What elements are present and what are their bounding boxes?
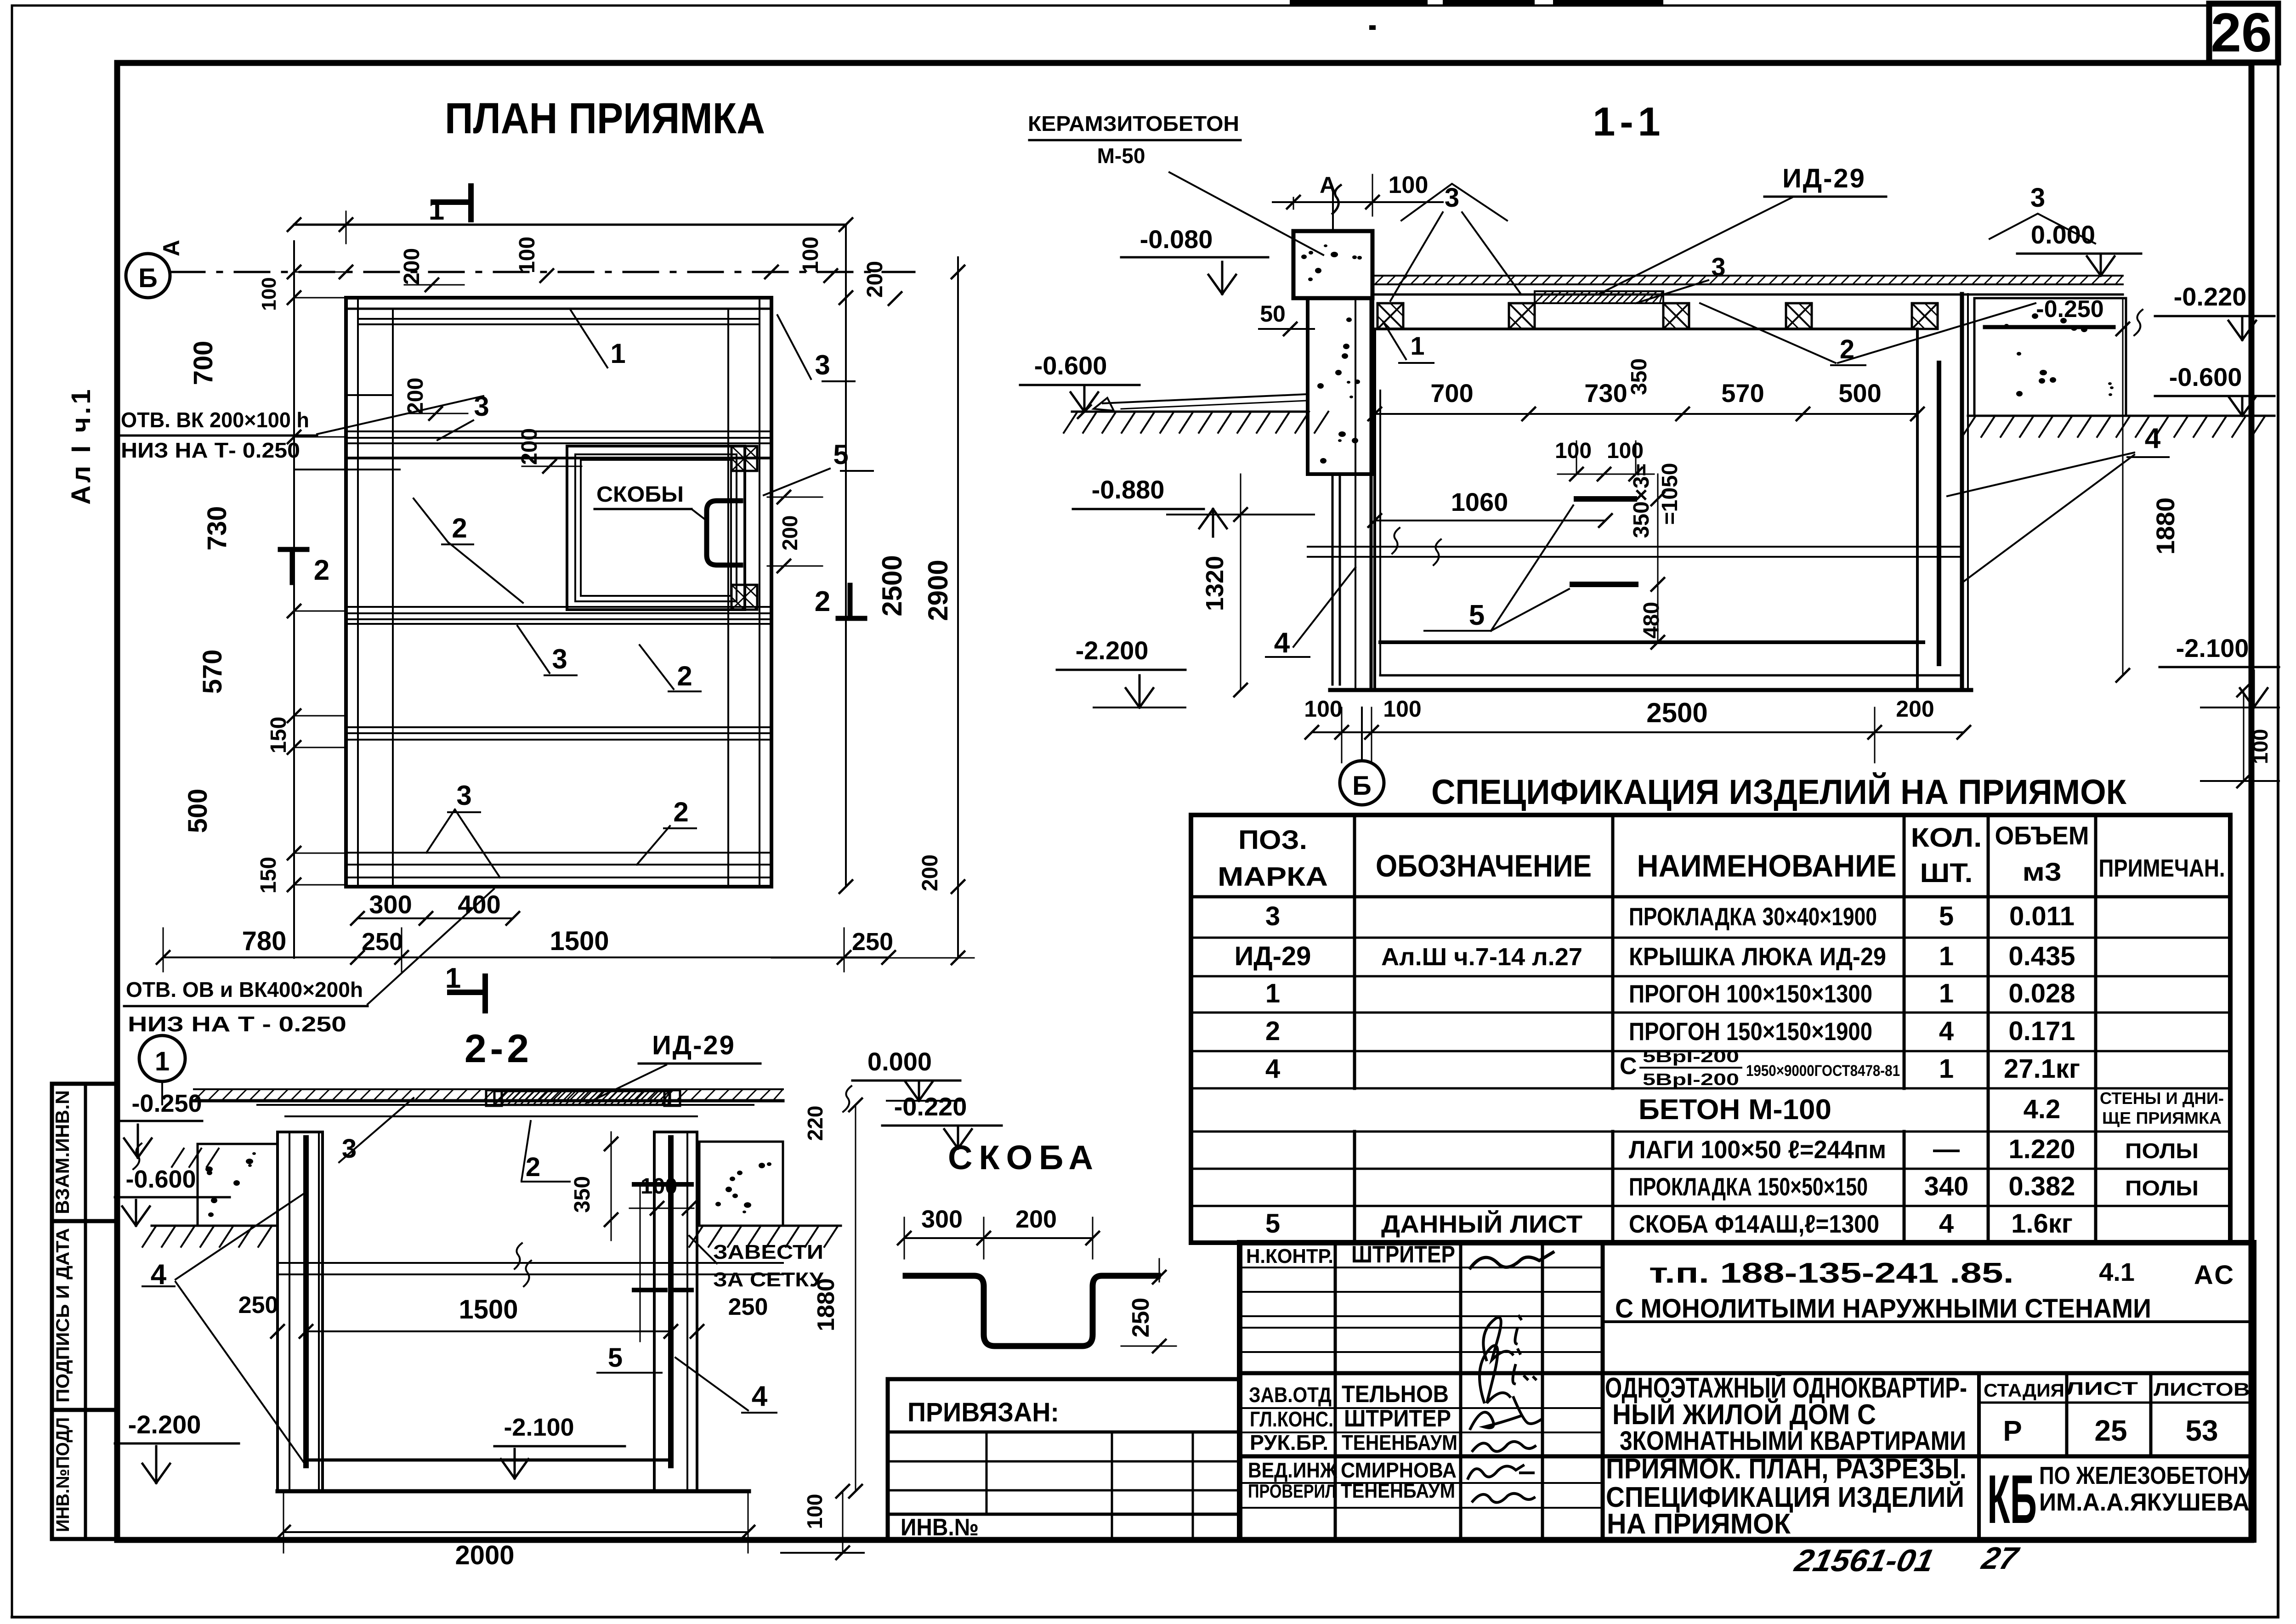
svg-text:-0.600: -0.600 (125, 1166, 196, 1193)
svg-text:570: 570 (1721, 379, 1764, 407)
svg-text:С МОНОЛИТЫМИ НАРУЖНЫМИ СТЕНАМИ: С МОНОЛИТЫМИ НАРУЖНЫМИ СТЕНАМИ (1615, 1294, 2151, 1324)
svg-text:5: 5 (1939, 901, 1954, 931)
svg-text:Н.КОНТР.: Н.КОНТР. (1246, 1245, 1333, 1268)
svg-text:НИЗ НА Т- 0.250: НИЗ НА Т- 0.250 (121, 438, 300, 462)
svg-text:350: 350 (1627, 358, 1651, 395)
svg-text:0.011: 0.011 (2009, 901, 2075, 931)
svg-text:4.2: 4.2 (2024, 1094, 2061, 1124)
svg-text:НАИМЕНОВАНИЕ: НАИМЕНОВАНИЕ (1637, 849, 1897, 883)
svg-text:ЩЕ ПРИЯМКА: ЩЕ ПРИЯМКА (2102, 1109, 2222, 1127)
svg-text:100: 100 (515, 237, 539, 273)
svg-text:АС: АС (2194, 1260, 2235, 1290)
svg-text:ЗАВЕСТИ: ЗАВЕСТИ (713, 1241, 823, 1263)
svg-text:5ВрI-200: 5ВрI-200 (1643, 1047, 1739, 1066)
svg-text:ОБЪЕМ: ОБЪЕМ (1995, 821, 2089, 850)
svg-text:700: 700 (1430, 379, 1473, 407)
svg-text:-2.200: -2.200 (1076, 636, 1149, 665)
svg-text:200: 200 (1896, 696, 1934, 722)
svg-text:200: 200 (778, 515, 802, 551)
svg-text:ПОЛЫ: ПОЛЫ (2125, 1139, 2199, 1163)
svg-text:150: 150 (266, 717, 291, 753)
svg-text:570: 570 (198, 650, 227, 694)
svg-text:0.000: 0.000 (2031, 220, 2095, 249)
svg-text:5: 5 (1469, 600, 1485, 631)
svg-text:4: 4 (2145, 423, 2161, 454)
svg-text:700: 700 (188, 341, 218, 385)
svg-text:0.435: 0.435 (2008, 941, 2075, 971)
svg-text:200: 200 (517, 428, 542, 465)
svg-text:ШТРИТЕР: ШТРИТЕР (1344, 1405, 1451, 1432)
svg-text:250: 250 (728, 1294, 768, 1320)
svg-text:ПРОГОН 150×150×1900: ПРОГОН 150×150×1900 (1629, 1017, 1872, 1046)
svg-text:300: 300 (369, 890, 412, 919)
svg-text:ЛИСТ: ЛИСТ (2065, 1379, 2138, 1399)
svg-text:ПРОГОН 100×150×1300: ПРОГОН 100×150×1300 (1629, 979, 1872, 1008)
svg-text:26: 26 (2211, 2, 2272, 63)
svg-text:ПРИМЕЧАН.: ПРИМЕЧАН. (2099, 854, 2225, 882)
svg-text:ПОЗ.: ПОЗ. (1238, 825, 1307, 855)
svg-text:53: 53 (2185, 1414, 2218, 1447)
svg-text:ИД-29: ИД-29 (652, 1030, 736, 1060)
svg-text:1320: 1320 (1201, 556, 1229, 611)
svg-text:250: 250 (852, 928, 893, 956)
svg-text:СТЕНЫ И ДНИ-: СТЕНЫ И ДНИ- (2100, 1089, 2224, 1108)
svg-text:А: А (1320, 172, 1336, 198)
svg-text:25: 25 (2094, 1414, 2127, 1447)
svg-text:100: 100 (1304, 696, 1342, 722)
svg-text:ДАННЫЙ ЛИСТ: ДАННЫЙ ЛИСТ (1381, 1210, 1582, 1238)
svg-text:-0.250: -0.250 (131, 1090, 202, 1117)
svg-text:т.п. 188-135-241 .85.: т.п. 188-135-241 .85. (1649, 1257, 2014, 1289)
svg-text:1500: 1500 (459, 1295, 518, 1324)
svg-text:ПЛАН ПРИЯМКА: ПЛАН ПРИЯМКА (445, 94, 765, 143)
svg-text:ИНВ.№: ИНВ.№ (901, 1514, 979, 1541)
svg-text:Ал I ч.1: Ал I ч.1 (66, 386, 96, 504)
svg-text:200: 200 (1015, 1205, 1057, 1233)
svg-text:-0.220: -0.220 (894, 1092, 967, 1121)
svg-text:СМИРНОВА: СМИРНОВА (1341, 1458, 1457, 1482)
svg-text:РУК.БР.: РУК.БР. (1250, 1431, 1328, 1454)
svg-text:0.028: 0.028 (2008, 979, 2075, 1008)
svg-text:НА ПРИЯМОК: НА ПРИЯМОК (1607, 1508, 1791, 1540)
svg-text:1.6кг: 1.6кг (2011, 1209, 2073, 1239)
svg-text:220: 220 (803, 1106, 827, 1141)
svg-text:2: 2 (815, 586, 830, 617)
svg-text:2: 2 (452, 513, 467, 543)
svg-text:250: 250 (362, 928, 403, 956)
svg-text:150: 150 (256, 857, 281, 894)
svg-text:2500: 2500 (877, 555, 907, 616)
svg-text:5: 5 (608, 1343, 623, 1373)
svg-text:1880: 1880 (813, 1278, 839, 1331)
svg-text:1950×9000ГОСТ8478-81: 1950×9000ГОСТ8478-81 (1746, 1062, 1900, 1080)
svg-text:ЛАГИ 100×50 ℓ=244пм: ЛАГИ 100×50 ℓ=244пм (1629, 1135, 1886, 1164)
svg-text:ЗА СЕТКУ: ЗА СЕТКУ (713, 1268, 824, 1291)
svg-text:480: 480 (1639, 602, 1664, 639)
svg-text:4: 4 (752, 1381, 768, 1412)
svg-text:ИМ.А.А.ЯКУШЕВА: ИМ.А.А.ЯКУШЕВА (2039, 1488, 2250, 1516)
svg-text:ПОЛЫ: ПОЛЫ (2125, 1176, 2199, 1200)
svg-text:100: 100 (799, 237, 823, 273)
svg-text:ПРОКЛАДКА 150×50×150: ПРОКЛАДКА 150×50×150 (1629, 1172, 1868, 1201)
svg-text:0.000: 0.000 (867, 1047, 932, 1076)
svg-text:—: — (1933, 1134, 1960, 1164)
svg-text:4: 4 (1274, 627, 1290, 659)
svg-text:350: 350 (570, 1176, 595, 1213)
svg-text:1: 1 (610, 338, 625, 369)
svg-text:0.382: 0.382 (2008, 1171, 2075, 1201)
svg-text:1500: 1500 (550, 926, 609, 956)
svg-text:ПРИВЯЗАН:: ПРИВЯЗАН: (907, 1398, 1059, 1427)
svg-text:1: 1 (155, 1047, 170, 1076)
svg-text:ОБОЗНАЧЕНИЕ: ОБОЗНАЧЕНИЕ (1376, 849, 1592, 883)
svg-text:1: 1 (429, 194, 444, 226)
svg-text:1: 1 (1939, 1054, 1954, 1084)
svg-text:Б: Б (138, 263, 158, 293)
svg-text:1.220: 1.220 (2008, 1134, 2075, 1164)
svg-text:4.1: 4.1 (2099, 1257, 2135, 1286)
svg-text:ШТ.: ШТ. (1920, 858, 1973, 888)
svg-text:ОТВ. ВК 200×100 h: ОТВ. ВК 200×100 h (121, 408, 309, 432)
svg-text:2900: 2900 (923, 560, 953, 621)
svg-text:1: 1 (1939, 979, 1954, 1008)
svg-text:М-50: М-50 (1097, 144, 1145, 168)
svg-text:3: 3 (1711, 252, 1725, 281)
svg-text:780: 780 (242, 926, 287, 956)
svg-text:КРЫШКА ЛЮКА ИД-29: КРЫШКА ЛЮКА ИД-29 (1629, 942, 1886, 971)
svg-text:КОЛ.: КОЛ. (1911, 823, 1982, 853)
svg-text:100: 100 (1389, 172, 1429, 198)
svg-text:ВЗАМ.ИНВ.N: ВЗАМ.ИНВ.N (51, 1090, 73, 1214)
svg-text:-2.100: -2.100 (2176, 634, 2249, 662)
svg-text:СТАДИЯ: СТАДИЯ (1984, 1381, 2064, 1401)
svg-text:СКОБЫ: СКОБЫ (596, 482, 684, 507)
svg-text:100: 100 (1555, 439, 1592, 463)
svg-text:СПЕЦИФИКАЦИЯ ИЗДЕЛИЙ НА ПРИ: СПЕЦИФИКАЦИЯ ИЗДЕЛИЙ НА ПРИЯМОК (1431, 772, 2127, 812)
svg-text:5ВрI-200: 5ВрI-200 (1643, 1070, 1739, 1089)
svg-text:А: А (159, 240, 184, 256)
svg-text:3: 3 (815, 350, 830, 380)
svg-text:ПРОКЛАДКА 30×40×1900: ПРОКЛАДКА 30×40×1900 (1629, 902, 1877, 931)
svg-text:Ал.Ш ч.7-14 л.27: Ал.Ш ч.7-14 л.27 (1381, 943, 1582, 971)
svg-text:-0.080: -0.080 (1140, 225, 1213, 254)
svg-text:НИЗ НА Т - 0.250: НИЗ НА Т - 0.250 (128, 1012, 346, 1036)
svg-text:250: 250 (1128, 1298, 1154, 1338)
svg-text:БЕТОН М-100: БЕТОН М-100 (1638, 1094, 1831, 1126)
svg-text:100: 100 (1383, 696, 1421, 722)
svg-text:-0.600: -0.600 (1034, 351, 1107, 380)
svg-text:340: 340 (1924, 1171, 1969, 1201)
svg-text:5: 5 (1265, 1209, 1280, 1239)
svg-text:2-2: 2-2 (465, 1027, 533, 1071)
svg-text:ПРИЯМОК. ПЛАН, РАЗРЕЗЫ.: ПРИЯМОК. ПЛАН, РАЗРЕЗЫ. (1606, 1453, 1967, 1485)
svg-text:1: 1 (1265, 979, 1280, 1008)
svg-text:1880: 1880 (2151, 498, 2180, 555)
svg-text:200: 200 (863, 261, 887, 298)
svg-text:-0.250: -0.250 (2036, 296, 2103, 323)
svg-text:3: 3 (1265, 901, 1280, 931)
svg-text:3: 3 (2030, 183, 2045, 213)
svg-text:100: 100 (2248, 729, 2272, 764)
svg-text:ИД-29: ИД-29 (1782, 164, 1866, 193)
svg-text:ПО ЖЕЛЕЗОБЕТОНУ: ПО ЖЕЛЕЗОБЕТОНУ (2039, 1462, 2252, 1489)
svg-text:2: 2 (1265, 1016, 1280, 1046)
svg-text:ШТРИТЕР: ШТРИТЕР (1351, 1241, 1455, 1268)
svg-text:ТЕНЕНБАУМ: ТЕНЕНБАУМ (1342, 1431, 1457, 1454)
svg-text:2000: 2000 (455, 1540, 514, 1570)
svg-text:100: 100 (803, 1494, 827, 1529)
svg-text:2: 2 (526, 1152, 540, 1182)
svg-text:1-1: 1-1 (1593, 99, 1665, 144)
svg-text:1: 1 (1939, 941, 1954, 971)
svg-text:2: 2 (314, 555, 329, 586)
svg-text:Р: Р (2003, 1415, 2022, 1447)
svg-text:СКОБА Ф14АШ,ℓ=1300: СКОБА Ф14АШ,ℓ=1300 (1629, 1210, 1879, 1238)
svg-text:-0.600: -0.600 (2169, 362, 2242, 391)
svg-text:ИД-29: ИД-29 (1235, 941, 1311, 971)
svg-text:СКОБА: СКОБА (948, 1138, 1100, 1177)
svg-text:МАРКА: МАРКА (1218, 862, 1328, 892)
svg-text:ГЛ.КОНС.: ГЛ.КОНС. (1250, 1407, 1333, 1431)
svg-text:500: 500 (183, 789, 213, 833)
svg-text:ЗАВ.ОТД: ЗАВ.ОТД (1249, 1383, 1332, 1407)
svg-text:100: 100 (258, 277, 280, 311)
svg-text:2500: 2500 (1646, 697, 1707, 728)
svg-text:730: 730 (1584, 379, 1627, 407)
svg-text:3: 3 (552, 644, 567, 674)
svg-text:100: 100 (1607, 439, 1644, 463)
svg-text:2: 2 (677, 661, 692, 691)
svg-text:250: 250 (238, 1292, 278, 1318)
svg-text:С: С (1620, 1053, 1637, 1080)
svg-text:4: 4 (1939, 1016, 1954, 1046)
svg-text:4: 4 (1939, 1209, 1954, 1239)
svg-text:ТЕНЕНБАУМ: ТЕНЕНБАУМ (1341, 1480, 1455, 1502)
svg-text:50: 50 (1260, 301, 1286, 327)
svg-text:21561-01: 21561-01 (1791, 1543, 1937, 1578)
svg-text:730: 730 (202, 506, 232, 551)
svg-text:ВЕД.ИНЖ: ВЕД.ИНЖ (1248, 1458, 1337, 1482)
svg-text:м3: м3 (2023, 857, 2062, 886)
svg-text:3: 3 (456, 780, 471, 811)
svg-text:0.171: 0.171 (2008, 1016, 2075, 1046)
svg-text:ПОДПИСЬ И ДАТА: ПОДПИСЬ И ДАТА (53, 1228, 73, 1403)
svg-text:Б: Б (1352, 771, 1372, 801)
svg-text:-0.880: -0.880 (1092, 475, 1165, 504)
svg-text:1: 1 (1410, 331, 1424, 360)
svg-text:-0.220: -0.220 (2174, 282, 2247, 311)
svg-text:КБ: КБ (1987, 1460, 2037, 1538)
svg-text:1: 1 (445, 962, 461, 994)
svg-text:200: 200 (918, 854, 942, 891)
svg-text:-2.200: -2.200 (128, 1410, 201, 1439)
svg-text:КЕРАМЗИТОБЕТОН: КЕРАМЗИТОБЕТОН (1028, 112, 1239, 136)
svg-text:ИНВ.№ПОДЛ: ИНВ.№ПОДЛ (53, 1417, 73, 1532)
svg-text:ПРОВЕРИЛ: ПРОВЕРИЛ (1248, 1480, 1336, 1502)
svg-text:200: 200 (400, 248, 424, 285)
svg-text:ЛИСТОВ: ЛИСТОВ (2154, 1380, 2250, 1400)
svg-text:500: 500 (1838, 379, 1881, 407)
svg-text:ТЕЛЬНОВ: ТЕЛЬНОВ (1342, 1381, 1449, 1408)
svg-text:4: 4 (1265, 1054, 1280, 1084)
svg-text:ОТВ. ОВ и ВК400×200h: ОТВ. ОВ и ВК400×200h (126, 978, 363, 1002)
svg-text:2: 2 (673, 797, 688, 827)
svg-text:27.1кг: 27.1кг (2004, 1054, 2080, 1084)
svg-text:350×3=: 350×3= (1629, 464, 1654, 538)
svg-text:1060: 1060 (1451, 487, 1508, 516)
svg-text:-2.100: -2.100 (504, 1414, 574, 1441)
svg-text:100: 100 (641, 1174, 677, 1199)
svg-text:400: 400 (458, 890, 500, 919)
svg-text:3КОМНАТНЫМИ КВАРТИРАМИ: 3КОМНАТНЫМИ КВАРТИРАМИ (1620, 1426, 1966, 1456)
svg-text:300: 300 (921, 1205, 963, 1233)
